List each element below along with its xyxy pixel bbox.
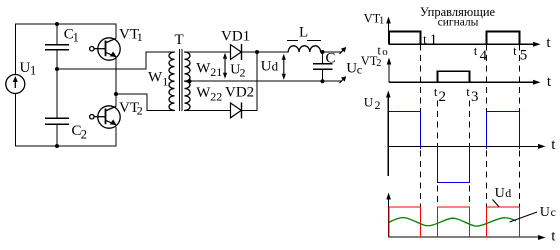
- label t2: [434, 84, 446, 105]
- label VT2: [119, 100, 143, 118]
- wire VT2 collector: [115, 94, 117, 106]
- wire C branch bottom: [56, 124, 58, 146]
- transformer T primary winding W1: [169, 52, 175, 110]
- wire left rail lower: [14, 94, 16, 147]
- svg-text:t: t: [513, 44, 517, 58]
- svg-text:3: 3: [471, 89, 479, 105]
- svg-text:1: 1: [379, 15, 384, 26]
- inductor core dashes: [287, 40, 321, 42]
- svg-text:t: t: [474, 44, 478, 58]
- svg-text:U: U: [364, 94, 374, 109]
- diode VD2: [231, 102, 242, 118]
- svg-text:U: U: [20, 60, 31, 76]
- label W21: [196, 60, 222, 79]
- wire center tap return rail: [185, 80, 341, 82]
- wire top rail: [15, 23, 116, 25]
- svg-text:1: 1: [30, 64, 36, 78]
- transformer secondary windings W21 W22: [185, 52, 191, 110]
- svg-text:W: W: [148, 70, 163, 86]
- node dot VT midpoint: [114, 92, 118, 96]
- VT2 pulse: [438, 71, 470, 82]
- pointer Uc: [510, 212, 538, 222]
- Uc green waveform: [389, 218, 516, 227]
- label W1: [148, 70, 168, 89]
- svg-text:1: 1: [162, 74, 168, 88]
- svg-text:2: 2: [240, 66, 246, 80]
- wire VT2 emitter: [115, 128, 117, 147]
- label W22: [196, 85, 222, 104]
- wire secondary bottom to VD2: [185, 109, 231, 111]
- svg-text:5: 5: [520, 48, 528, 64]
- svg-text:U: U: [495, 186, 505, 201]
- transistor VT1: [90, 38, 121, 60]
- svg-text:2: 2: [137, 103, 143, 117]
- svg-text:VD2: VD2: [225, 85, 254, 101]
- svg-text:t: t: [377, 44, 381, 58]
- node dot A: [255, 50, 259, 54]
- capacitor C output: [313, 64, 333, 70]
- svg-text:U: U: [261, 58, 272, 74]
- VT1 pulse 2: [487, 32, 520, 45]
- wire secondary top to VD1: [185, 51, 231, 53]
- svg-text:L: L: [299, 25, 308, 41]
- dashed line t4: [486, 45, 488, 207]
- wire VD2 to riser: [242, 109, 258, 111]
- node dot C2 bottom: [55, 144, 59, 148]
- diode VD1: [231, 44, 242, 60]
- dashed line t1: [420, 45, 422, 207]
- wire node A to L: [257, 51, 288, 53]
- source U1: [6, 75, 25, 94]
- wire C-midpoint to primary top: [57, 52, 175, 69]
- label C1: [64, 26, 79, 44]
- VT1 pulse 1: [389, 32, 421, 45]
- svg-text:2: 2: [81, 127, 87, 141]
- svg-text:1: 1: [430, 32, 438, 48]
- svg-text:сигналы: сигналы: [438, 16, 479, 28]
- label Ud: [261, 58, 279, 74]
- svg-text:d: d: [272, 58, 279, 73]
- inductor L: [288, 46, 320, 52]
- transistor VT2: [90, 106, 121, 128]
- U2 diagram axes: [388, 94, 541, 176]
- wire VT-midpoint to primary bottom: [116, 94, 175, 110]
- node dot L-C: [321, 50, 325, 54]
- node dot C bottom: [321, 79, 325, 83]
- dashed line t5: [519, 45, 521, 207]
- svg-text:d: d: [505, 186, 511, 200]
- node dot C midpoint: [55, 67, 59, 71]
- transformer core: [179, 49, 181, 111]
- Ud Uc diagram axes: [389, 196, 541, 237]
- label Uc with pointer: [540, 205, 556, 220]
- svg-text:22: 22: [210, 89, 222, 103]
- wire C branch top: [56, 24, 58, 45]
- label t3: [466, 84, 478, 105]
- label U2: [230, 62, 245, 79]
- svg-text:o: o: [382, 46, 388, 58]
- arrow U2: [223, 53, 227, 79]
- label VT1 axis: [364, 12, 385, 27]
- svg-text:T: T: [175, 32, 184, 48]
- svg-text:t: t: [434, 84, 438, 99]
- svg-text:W: W: [196, 85, 211, 101]
- wire C cap bottom stub: [322, 69, 324, 81]
- label t1: [423, 32, 437, 48]
- arrow Ud: [282, 54, 286, 80]
- node dot center tap: [188, 79, 192, 83]
- svg-text:t: t: [423, 33, 427, 47]
- VT1 diagram axes: [389, 20, 537, 44]
- U2 waveform: [389, 112, 520, 183]
- label Ud with pointer: [495, 186, 512, 201]
- output terminal arrow top: [340, 47, 347, 54]
- svg-text:C: C: [326, 51, 336, 67]
- Ud red waveform: [389, 207, 520, 237]
- wire L to C node: [321, 51, 341, 53]
- wire VT1 collector: [115, 24, 117, 38]
- wire C cap top stub: [322, 52, 324, 64]
- wire left rail upper: [14, 24, 16, 75]
- svg-text:VT: VT: [361, 54, 378, 68]
- svg-text:VD1: VD1: [221, 29, 250, 45]
- svg-text:U: U: [346, 60, 357, 76]
- svg-text:1: 1: [73, 31, 79, 45]
- label C2: [72, 123, 88, 141]
- capacitor C2: [45, 118, 69, 124]
- VT2 diagram axes: [389, 61, 536, 82]
- label U1: [20, 60, 37, 78]
- svg-text:2: 2: [375, 98, 381, 112]
- pointer Ud: [493, 200, 500, 207]
- svg-text:2: 2: [376, 58, 381, 69]
- label U2 axis: [364, 94, 381, 112]
- label Uc: [346, 60, 362, 76]
- wire VT1 emitter to node: [115, 57, 117, 94]
- label VT1: [119, 26, 143, 44]
- capacitor C1: [45, 45, 69, 50]
- wire bottom rail: [15, 145, 116, 147]
- svg-text:4: 4: [480, 48, 488, 64]
- svg-text:t: t: [466, 84, 470, 99]
- svg-text:c: c: [551, 207, 556, 219]
- svg-text:21: 21: [210, 65, 222, 79]
- svg-text:U: U: [540, 205, 550, 220]
- dashed line t2: [437, 101, 439, 207]
- dashed line t3: [469, 101, 471, 207]
- wire VD1 to node A: [242, 51, 258, 53]
- node dot C1 top: [55, 22, 59, 26]
- svg-text:1: 1: [137, 30, 143, 44]
- svg-text:W: W: [196, 60, 211, 76]
- label t0: [377, 44, 388, 59]
- svg-text:2: 2: [439, 89, 447, 105]
- label VT2 axis: [361, 54, 382, 69]
- label t4: [474, 44, 488, 64]
- wire C branch middle: [56, 50, 58, 119]
- label t5: [513, 44, 527, 64]
- wire node A riser: [256, 52, 258, 110]
- output terminal arrow bottom: [340, 76, 347, 83]
